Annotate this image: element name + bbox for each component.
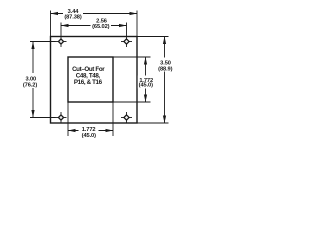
svg-text:(76.2): (76.2) bbox=[23, 83, 37, 89]
svg-text:(45.0): (45.0) bbox=[82, 133, 96, 139]
svg-text:(65.02): (65.02) bbox=[92, 24, 110, 30]
svg-text:(88.9): (88.9) bbox=[158, 66, 172, 72]
svg-text:(87.38): (87.38) bbox=[64, 14, 82, 20]
svg-text:3.50: 3.50 bbox=[160, 60, 171, 66]
svg-text:(45.0): (45.0) bbox=[139, 83, 153, 89]
svg-text:3.00: 3.00 bbox=[25, 76, 36, 82]
svg-text:P16, & T16: P16, & T16 bbox=[74, 79, 103, 86]
